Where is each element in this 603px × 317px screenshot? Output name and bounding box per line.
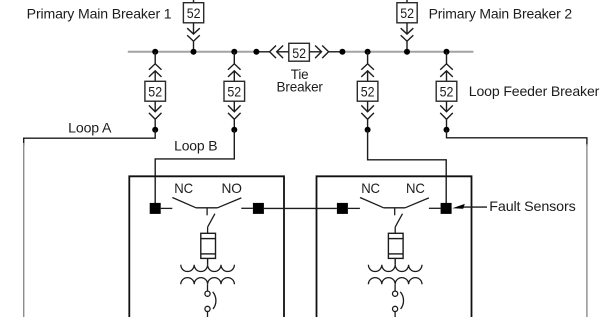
transformer T2 [368,265,422,291]
node on bus x368 [365,49,371,55]
svg-text:52: 52 [227,84,241,100]
svg-text:Breaker: Breaker [277,79,324,95]
wire Loop A left drop (gray) [23,143,25,317]
node Loop A tap [152,127,158,133]
svg-text:Fault Sensors: Fault Sensors [489,198,575,214]
wire loop C [368,130,447,203]
node on bus x256 (tie left) [253,49,259,55]
loop feeder breaker 52 (Loop B, x234) [224,52,245,130]
svg-text:Primary Main Breaker 1: Primary Main Breaker 1 [27,5,172,21]
svg-text:NC: NC [174,180,193,196]
svg-text:52: 52 [187,6,201,22]
loop feeder breaker 52 (Loop A, x155) [145,52,166,130]
node Loop B tap [231,127,237,133]
wire Loop B [155,130,234,203]
svg-text:52: 52 [400,6,414,22]
bus (main gray busbar) [128,51,474,53]
svg-text:Loop B: Loop B [174,138,217,154]
switch box1 (NC/NO loop selector) [161,198,253,234]
switch box2 (NC/NC loop selector) [348,198,441,234]
enclosure switchgear 1 [129,176,284,317]
wire sensor chain box1-box2 [264,207,337,209]
fault sensor S2 (box1 right) [253,203,264,214]
enclosure switchgear 2 [317,176,472,317]
breaker 52 PMB2 (drawout) [397,0,417,52]
fault sensor S1 (box1 left) [150,203,161,214]
node on bus x193 (PMB1) [191,49,197,55]
breaker 52 PMB1 (drawout) [183,0,203,52]
svg-text:52: 52 [148,84,162,100]
svg-text:NO: NO [222,180,243,196]
wire loop D right [447,130,587,146]
node on bus x446 [444,49,450,55]
svg-text:Loop A: Loop A [68,120,112,136]
wire loop D right drop (gray) [586,144,588,317]
svg-text:Loop Feeder Breaker: Loop Feeder Breaker [469,83,600,99]
node on bus x407 (PMB2) [404,49,410,55]
transformer T1 [181,265,235,291]
fault sensor S3 (box2 left) [337,203,348,214]
svg-text:52: 52 [292,46,306,62]
disconnect switch box1 [205,291,216,317]
fault sensor S4 (box2 right) [441,203,452,214]
wire Loop A [24,130,156,146]
disconnect switch box2 [393,291,404,317]
tie breaker 52 (horizontal drawout) [256,43,342,61]
node loop C tap [365,127,371,133]
loop feeder breaker 52 (x368) [357,52,378,130]
node on bus x234 [231,49,237,55]
fuse F1 [201,233,216,264]
svg-text:52: 52 [440,84,454,100]
arrow to fault sensor S4 [463,206,487,208]
svg-text:NC: NC [361,180,380,196]
node on bus x342 (tie right) [339,49,345,55]
svg-text:NC: NC [406,180,425,196]
svg-text:Primary Main Breaker 2: Primary Main Breaker 2 [429,5,573,21]
svg-text:52: 52 [361,84,375,100]
node on bus x155 [152,49,158,55]
loop feeder breaker 52 (x446) [436,52,457,130]
node loop D tap [444,127,450,133]
fuse F2 [388,233,403,264]
